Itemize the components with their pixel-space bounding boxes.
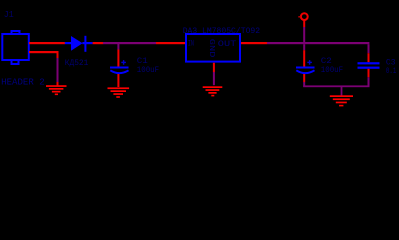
wire node A to regulator (purple middle) (103, 42, 156, 44)
svg-text:0.1: 0.1 (386, 67, 396, 76)
diode D1 (65, 36, 93, 52)
svg-text:100uF: 100uF (137, 66, 159, 75)
wire J1 pin1 to diode (29, 42, 65, 44)
wire terminal down to rail (303, 20, 305, 42)
connector J1 body (2, 31, 29, 64)
wire regulator OUT (241, 42, 267, 44)
ground GND2 (C1) (108, 87, 130, 97)
wire into regulator IN (156, 42, 186, 44)
wire regulator GND pin down (213, 63, 215, 85)
svg-text:HEADER 2: HEADER 2 (1, 77, 45, 87)
ground GND4 (output rail) (330, 95, 353, 106)
svg-text:OUT: OUT (218, 41, 237, 49)
wire branch down to C1 (117, 44, 119, 67)
wire node B down to C2 (303, 44, 305, 66)
regulator DA3 box (186, 34, 240, 62)
wire C3 branch down (368, 44, 370, 62)
wire C3 down to rail (368, 69, 370, 87)
ground GND1 (J1) (46, 85, 67, 95)
output terminal X1 (298, 13, 307, 20)
svg-text:C2: C2 (321, 57, 332, 66)
wire J1 pin2 (29, 51, 59, 86)
svg-text:GND: GND (207, 39, 215, 58)
wire OUT rail to C3 (purple) (267, 42, 369, 44)
wire diode to node A (93, 42, 104, 44)
bottom rail wire (303, 85, 369, 87)
wire C1 to ground (117, 74, 119, 87)
capacitor C3 (358, 62, 380, 69)
svg-text:100uF: 100uF (321, 66, 343, 75)
capacitor C1 (110, 60, 129, 73)
wire C2 down to rail (303, 74, 305, 87)
ground GND4 stem (341, 87, 343, 96)
svg-text:IN: IN (188, 40, 194, 48)
svg-text:C1: C1 (137, 57, 148, 66)
ground GND3 (regulator) (203, 86, 223, 96)
svg-text:J1: J1 (4, 9, 14, 20)
svg-text:КД521: КД521 (65, 59, 89, 68)
capacitor C2 (296, 60, 315, 73)
